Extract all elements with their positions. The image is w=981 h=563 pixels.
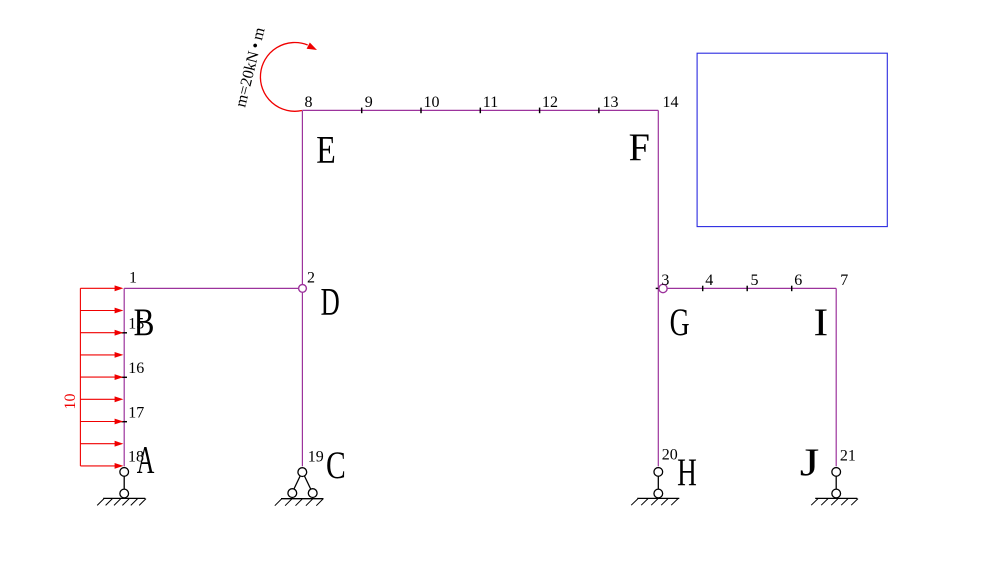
svg-text:I: I: [814, 301, 829, 344]
support A (link support at node 18): [97, 468, 146, 506]
svg-text:7: 7: [840, 272, 848, 289]
svg-text:J: J: [800, 440, 820, 483]
beam G-I (nodes 3-7): [658, 287, 836, 289]
hinge node 3: [659, 284, 667, 292]
svg-text:E: E: [316, 127, 336, 171]
tick node 4: [702, 286, 704, 292]
tick node 3 on column: [656, 287, 661, 289]
svg-text:C: C: [326, 444, 346, 487]
tick node 17: [122, 421, 128, 423]
blue legend box: [697, 53, 887, 226]
svg-text:1: 1: [129, 270, 137, 287]
svg-text:8: 8: [305, 94, 313, 111]
svg-text:10: 10: [62, 394, 79, 410]
tick node 6: [791, 286, 793, 292]
support C (pin support at node 19): [275, 468, 324, 506]
column E-D-C (x=302.4): [301, 110, 303, 466]
tick node 16: [122, 376, 128, 378]
tick node 15: [122, 332, 128, 334]
svg-text:F: F: [629, 127, 650, 169]
svg-text:4: 4: [705, 272, 713, 289]
tick node 10: [420, 108, 422, 114]
load arrow 8: [80, 443, 115, 445]
load arrow 7: [80, 421, 115, 423]
svg-text:21: 21: [840, 448, 856, 465]
load arrow 4: [80, 354, 115, 356]
tick node 9: [361, 108, 363, 114]
tick node 13: [598, 108, 600, 114]
svg-text:16: 16: [128, 360, 144, 377]
svg-text:13: 13: [603, 94, 619, 111]
svg-text:20: 20: [662, 447, 678, 464]
svg-text:19: 19: [308, 448, 324, 465]
svg-text:B: B: [134, 301, 155, 344]
svg-text:14: 14: [663, 94, 679, 111]
svg-text:m=20kN • m: m=20kN • m: [232, 25, 268, 109]
hinge node 2: [299, 285, 307, 293]
svg-text:17: 17: [128, 404, 144, 421]
moment arrowhead: [307, 43, 317, 51]
load arrow 3: [80, 332, 115, 334]
load arrow 9: [80, 465, 115, 467]
svg-text:G: G: [670, 301, 690, 344]
column A-B (x=124.2): [123, 288, 125, 466]
tick node 5: [746, 286, 748, 292]
svg-text:2: 2: [307, 270, 315, 287]
distributed load q=10 on column A-B: [80, 285, 123, 468]
tick node 12: [539, 108, 541, 114]
svg-text:9: 9: [365, 94, 373, 111]
svg-text:A: A: [137, 439, 155, 482]
support J (link support at node 21): [811, 468, 858, 506]
tick node 11: [479, 108, 481, 114]
beam B-D (nodes 1-2): [124, 287, 302, 289]
load arrow 2: [80, 310, 115, 312]
beam E-F (top beam, nodes 8-14): [302, 109, 658, 111]
column I-J (x=836.2): [835, 288, 837, 466]
load arrow 5: [80, 376, 115, 378]
svg-text:D: D: [321, 281, 340, 324]
load arrow 6: [80, 398, 115, 400]
svg-text:6: 6: [794, 272, 802, 289]
svg-text:5: 5: [751, 272, 759, 289]
moment arc m=20kN*m at node 8: [260, 42, 307, 111]
svg-text:3: 3: [661, 272, 669, 289]
svg-text:10: 10: [424, 94, 440, 111]
svg-text:H: H: [677, 452, 697, 495]
svg-text:11: 11: [483, 94, 498, 111]
column F-G-H (x=658.3): [657, 110, 659, 466]
load arrow 1: [80, 287, 115, 289]
svg-text:12: 12: [542, 94, 558, 111]
support H (link support at node 20): [631, 468, 679, 506]
